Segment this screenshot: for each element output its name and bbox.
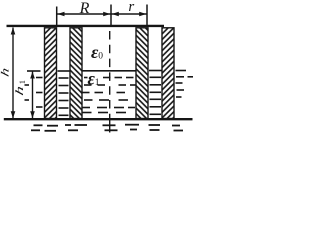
svg-text:h: h: [14, 84, 26, 97]
top cap line: [7, 25, 165, 27]
axis dashed center line: [109, 31, 111, 118]
h1 arrow up: [30, 72, 35, 79]
label h1 (rotated): [14, 84, 26, 97]
liquid level tick right of plates: [176, 70, 187, 72]
h arrow down: [11, 111, 16, 118]
bath dashes row 1: [34, 125, 181, 126]
tick middle (axis): [110, 5, 112, 27]
h dimension line: [12, 28, 14, 119]
liquid dashes right of plate4: [176, 77, 194, 97]
liquid dashes in left gap: [59, 78, 69, 115]
label h (rotated): [0, 66, 11, 78]
h1 dimension line: [32, 72, 34, 119]
dimension line r: [111, 13, 147, 15]
svg-text:1: 1: [95, 78, 100, 88]
liquid level tick left of plates: [27, 70, 41, 72]
capacitor plate: outer cylinder left wall: [45, 28, 57, 119]
arrow r left: [112, 12, 119, 16]
liquid dashes left of plate1: [25, 78, 43, 108]
liquid dashes in right gap: [150, 77, 162, 114]
capacitor plate: outer cylinder right wall: [162, 28, 174, 119]
bath dashes row 2: [31, 130, 183, 131]
arrow R right: [103, 12, 110, 16]
axis line below bath: [109, 118, 111, 133]
liquid dashes inside inner cylinder: [83, 78, 136, 113]
capacitor plate: inner cylinder right wall: [136, 28, 148, 119]
tick right (inner cylinder outer surface): [146, 5, 148, 27]
label epsilon0: [91, 42, 103, 62]
label epsilon1: [88, 69, 100, 89]
bath surface line: [4, 118, 193, 120]
arrow r right: [139, 12, 146, 16]
svg-text:h: h: [0, 66, 11, 78]
liquid level in left gap: [58, 70, 70, 72]
label R: [79, 0, 90, 17]
h arrow up: [11, 28, 16, 35]
svg-text:R: R: [79, 0, 90, 17]
svg-text:1: 1: [17, 80, 27, 84]
h1 arrow down: [30, 111, 35, 118]
liquid level inside inner cylinder: [82, 70, 136, 72]
svg-text:0: 0: [98, 52, 103, 62]
svg-text:r: r: [128, 0, 134, 15]
dimension line R: [57, 13, 112, 15]
capacitor plate: inner cylinder left wall: [70, 28, 82, 119]
arrow R left: [57, 12, 64, 16]
label r: [128, 0, 134, 15]
label h1 subscript: [17, 80, 27, 84]
tick left (outer cylinder inner surface): [56, 7, 58, 27]
liquid level in right gap: [149, 70, 162, 72]
